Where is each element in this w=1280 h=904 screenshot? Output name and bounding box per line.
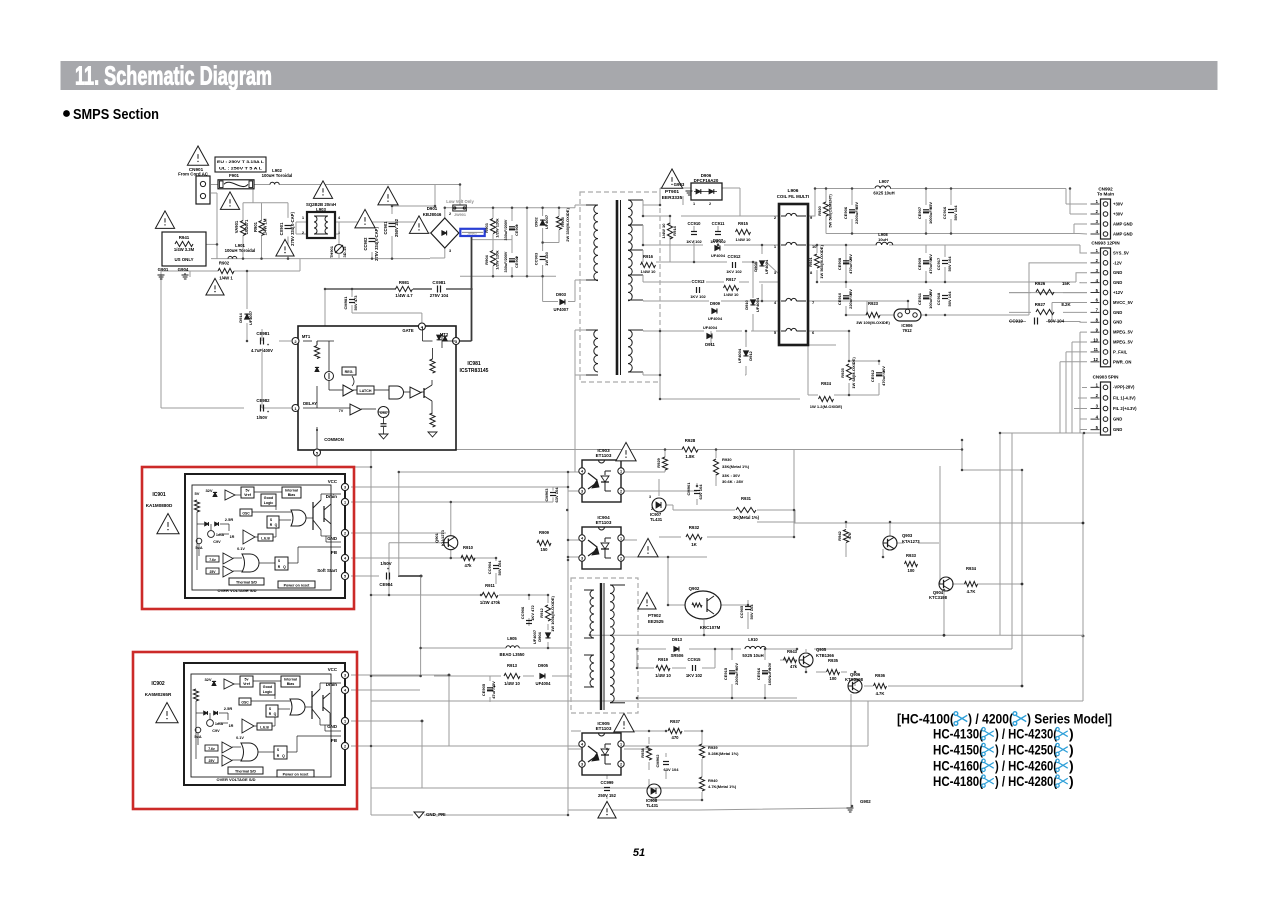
svg-text:50V 104: 50V 104 (947, 291, 952, 307)
svg-text:R921: R921 (808, 256, 813, 266)
svg-text:) / 4200(: ) / 4200( (968, 711, 1013, 727)
capacitor CE905 (487, 687, 493, 689)
svg-text:GND: GND (1113, 310, 1122, 315)
svg-text:50V 473: 50V 473 (353, 295, 358, 311)
svg-text:SYS_5V: SYS_5V (1113, 250, 1129, 255)
ground GND_PRI (414, 812, 424, 818)
svg-text:GND: GND (327, 536, 337, 541)
wire out rail +30V caps (825, 189, 827, 203)
svg-text:3: 3 (344, 486, 346, 490)
IC981 internal zener (315, 367, 319, 371)
svg-text:Internal: Internal (284, 678, 297, 682)
IC IC902 output darlington (311, 691, 313, 719)
svg-text:) / HC-4230(: ) / HC-4230( (995, 726, 1057, 742)
warning triangle PT902 (638, 592, 656, 609)
resistor R920 (823, 202, 828, 216)
wire common to left frame (317, 466, 371, 468)
svg-text:REG.: REG. (345, 370, 354, 374)
svg-text:[HC-4100(: [HC-4100( (897, 711, 954, 727)
svg-text:5W 560(CEMENT): 5W 560(CEMENT) (828, 194, 833, 228)
svg-text:L910: L910 (748, 637, 758, 642)
svg-text:25V: 25V (209, 570, 216, 574)
svg-text:5v: 5v (246, 489, 250, 493)
svg-text:Power on reset: Power on reset (284, 584, 311, 588)
capacitor CE915 (729, 670, 735, 672)
IC IC902 LEB box (257, 723, 272, 730)
svg-text:63V 104: 63V 104 (554, 487, 559, 503)
wire CC999 column (606, 749, 608, 779)
svg-text:FIL 2(+4.3V): FIL 2(+4.3V) (1113, 406, 1137, 411)
svg-text:2: 2 (620, 557, 622, 561)
svg-text:25V: 25V (208, 759, 215, 763)
wire X-cap row (371, 222, 373, 228)
svg-text:CC913: CC913 (691, 279, 705, 284)
wire +12V stair to pin5 (1009, 292, 1087, 294)
diode D912 (743, 351, 748, 356)
svg-text:Bias: Bias (287, 682, 295, 686)
svg-text:R919: R919 (658, 657, 669, 662)
svg-text:R904: R904 (484, 254, 489, 264)
svg-text:GND: GND (1113, 417, 1122, 422)
svg-text:ET1103: ET1103 (596, 453, 612, 458)
IC IC902 SRQ box 1 (266, 705, 278, 717)
svg-text:R936: R936 (875, 673, 886, 678)
svg-text:CE908: CE908 (837, 257, 842, 270)
wire snubber verticals (492, 208, 494, 218)
svg-text:R913: R913 (507, 663, 518, 668)
svg-text:1/4W 10: 1/4W 10 (661, 223, 666, 239)
warning triangle W9 (409, 216, 428, 233)
wire 7912 to CN993 pin2 (1029, 263, 1087, 315)
wire bottom FB long (351, 745, 868, 747)
wire R913 row (371, 675, 421, 677)
svg-text:GND_PRI: GND_PRI (426, 812, 446, 817)
svg-text:D909: D909 (710, 301, 721, 306)
svg-text:+30V: +30V (1113, 211, 1123, 216)
warning triangle IC903 (616, 442, 636, 460)
wire bottom drain net (351, 689, 420, 691)
SMPS Section heading bullet (63, 110, 70, 117)
wire IC907 net (658, 479, 660, 496)
wire IC981 delay left (262, 407, 291, 409)
wire PWR_ON stair pin12 (1060, 361, 1087, 363)
wire sec rail 4 (643, 300, 709, 302)
svg-text:C9V: C9V (213, 540, 221, 544)
IC IC901 OR gate (242, 554, 259, 572)
IC981 outline (298, 326, 456, 450)
capacitor CE910 (843, 295, 849, 297)
capacitor CC906 (526, 620, 532, 622)
IC IC902 inner box (191, 674, 331, 777)
IC IC902 5uA source (195, 727, 201, 733)
fuse rating box (215, 157, 266, 172)
svg-text:PT901: PT901 (665, 189, 679, 195)
svg-text:63V 104: 63V 104 (698, 484, 703, 500)
svg-text:FIL 1(-4.3V): FIL 1(-4.3V) (1113, 395, 1136, 400)
IC IC901 power on reset box (278, 581, 315, 588)
svg-text:7.6v: 7.6v (209, 558, 216, 562)
svg-text:15K: 15K (1062, 281, 1071, 286)
wire Q901 base row (389, 542, 444, 544)
IC981 pin COMMON (314, 449, 321, 456)
svg-text:R929: R929 (656, 457, 661, 467)
svg-text:1/4W 10: 1/4W 10 (504, 681, 520, 686)
svg-text:Q905: Q905 (816, 647, 827, 652)
wire opto net B (371, 594, 481, 596)
diode D910 (750, 300, 755, 305)
junction dots (216, 243, 219, 246)
resistor R929 (662, 457, 667, 470)
IC981 comparator B (350, 404, 361, 415)
capacitor CC902 (369, 238, 376, 240)
svg-text:D913: D913 (672, 637, 683, 642)
svg-text:4.7uF/400V: 4.7uF/400V (251, 348, 273, 353)
wire bottom mid rail 635 (590, 634, 1083, 636)
svg-text:2: 2 (344, 745, 346, 749)
svg-text:150: 150 (541, 547, 549, 552)
wire mid gnd rail (820, 281, 1076, 283)
wire MPEG stair pin9 (1080, 331, 1087, 333)
IC IC902 mosfet (322, 695, 324, 711)
capacitor CM902 (663, 761, 669, 763)
wire out row2 (808, 244, 877, 246)
IC981 gnd symbol B (428, 432, 437, 437)
PT902 primary upper (590, 590, 594, 638)
warning triangle W7 (355, 209, 375, 227)
svg-text:4.7K: 4.7K (876, 691, 885, 696)
svg-text:0.1V: 0.1V (237, 547, 245, 551)
IC IC902 internal amp1 (224, 679, 234, 689)
svg-text:2W 330(M-OXIDE): 2W 330(M-OXIDE) (565, 208, 570, 242)
IC IC902 error amp (242, 719, 254, 733)
svg-text:CM903: CM903 (544, 488, 549, 502)
svg-text:1KV 102: 1KV 102 (686, 673, 703, 678)
svg-text:R901: R901 (253, 221, 258, 232)
svg-text:47k: 47k (790, 664, 798, 669)
svg-text:CN993 12PIN: CN993 12PIN (1091, 241, 1120, 246)
svg-text:1: 1 (344, 501, 346, 505)
svg-text:CC916: CC916 (942, 206, 947, 219)
svg-text:Q903: Q903 (902, 533, 913, 538)
capacitor CE911 (923, 295, 929, 297)
svg-text:1R: 1R (229, 724, 234, 728)
svg-text:R927: R927 (1035, 302, 1046, 307)
svg-text:L.E.B: L.E.B (260, 726, 269, 730)
wire aux winding VCC feed (574, 375, 576, 472)
svg-text:TL431: TL431 (650, 517, 663, 522)
wire long loop y701 (371, 700, 1083, 702)
diode D908 (759, 261, 764, 266)
svg-text:R903: R903 (484, 222, 489, 232)
wire primary pins (574, 205, 576, 208)
wire sec mid taps (643, 281, 691, 283)
svg-text:R915: R915 (738, 221, 749, 226)
svg-text:CC912: CC912 (727, 254, 741, 259)
svg-text:330uF/200V: 330uF/200V (504, 219, 508, 240)
wire D914 column (246, 271, 248, 309)
opto-coupler IC903 (582, 460, 621, 502)
IC IC901 SRQ box 1 (267, 516, 279, 528)
IC IC902 comparator 7.6V (205, 745, 218, 751)
svg-text:G903: G903 (674, 182, 685, 187)
svg-text:100uH Toroidal: 100uH Toroidal (262, 173, 293, 178)
IC981 REG box (342, 367, 356, 375)
IC IC902 pins (341, 671, 348, 678)
svg-text:R920: R920 (817, 205, 822, 215)
wire bridge top vertex up (444, 208, 446, 218)
wire opto net A (399, 471, 568, 473)
svg-text:CE906: CE906 (843, 206, 848, 219)
svg-text:330uF/200V: 330uF/200V (504, 251, 508, 272)
wire R943 net (780, 659, 789, 661)
capacitor CC916 (948, 209, 954, 211)
wire pin9 up to top rail (808, 189, 874, 217)
svg-text:470: 470 (672, 735, 680, 740)
wire gnd stair pin7 (1075, 311, 1077, 313)
svg-text:GND: GND (1113, 427, 1122, 432)
svg-text:1KV 102: 1KV 102 (686, 239, 702, 244)
capacitor CE907 (923, 209, 929, 211)
resistor R901 (259, 221, 264, 236)
svg-text:1/4W 1M: 1/4W 1M (263, 218, 268, 235)
svg-text:R914: R914 (672, 225, 677, 235)
svg-text:5V: 5V (195, 491, 200, 496)
svg-text:D902: D902 (534, 216, 539, 226)
wire MT2 stub (574, 341, 576, 375)
varistor VA901 (240, 221, 245, 236)
svg-text:D901: D901 (427, 206, 438, 211)
wire IC901 drain net (351, 501, 553, 503)
svg-text:D905: D905 (538, 663, 549, 668)
svg-text:) / HC-4280(: ) / HC-4280( (995, 773, 1057, 789)
transformer PT901 secondary taps (628, 224, 643, 226)
svg-text:R934: R934 (966, 566, 977, 571)
svg-text:1/2W 470k: 1/2W 470k (480, 600, 501, 605)
svg-text:L.E.B: L.E.B (261, 537, 270, 541)
wire D913 row (637, 648, 666, 650)
svg-text:GND: GND (1113, 280, 1122, 285)
svg-text:UF4004: UF4004 (708, 316, 723, 321)
IC981 pin MT1 (292, 338, 299, 345)
wire 7912 top stub (907, 301, 909, 309)
wire AC input net verticals (459, 185, 461, 208)
svg-text:UL : 250V T 5 A L: UL : 250V T 5 A L (219, 166, 263, 171)
wire snubber bottom rail (460, 275, 556, 277)
wire CE981 net (261, 352, 263, 408)
warning triangle CC999 (598, 801, 616, 818)
svg-text:F901: F901 (229, 173, 240, 178)
connector CN992 (1101, 199, 1111, 239)
transformer PT901 aux primary small (597, 304, 599, 306)
svg-text:CX901: CX901 (279, 222, 284, 235)
svg-text:1/4W 10: 1/4W 10 (736, 237, 752, 242)
svg-text:JW901: JW901 (454, 213, 466, 217)
svg-text:G902: G902 (860, 799, 871, 804)
capacitor CE909 (923, 260, 929, 262)
IC981 current source (325, 372, 334, 381)
svg-text:470uF/10V: 470uF/10V (881, 366, 886, 386)
svg-text:G901: G901 (158, 267, 169, 272)
wire IC901 VCC net (351, 486, 568, 488)
svg-text:Q: Q (274, 712, 277, 716)
svg-text:R925: R925 (840, 367, 845, 377)
warning triangle W5 (155, 211, 174, 228)
transformer PT902 core (600, 583, 602, 710)
diode D903 (560, 299, 565, 304)
svg-text:1/4W 3.3M: 1/4W 3.3M (174, 247, 195, 252)
svg-text:CN903 5PIN: CN903 5PIN (1093, 375, 1119, 380)
svg-text:KTC3198: KTC3198 (845, 677, 864, 682)
wire AC lower rail (211, 258, 430, 260)
capacitor CC901 (389, 223, 396, 225)
capacitor CE901 (509, 226, 515, 228)
svg-text:CC904: CC904 (487, 561, 492, 574)
warning triangle W3 (276, 239, 294, 256)
wire R919 CC915 row (637, 667, 654, 669)
IC IC901 outer box (185, 474, 345, 598)
wire sec rail 1 (643, 215, 670, 217)
svg-text:VCC: VCC (328, 479, 338, 484)
svg-text:R940: R940 (708, 778, 718, 783)
blue highlight jumper (460, 229, 484, 236)
IC IC901 error amp (243, 530, 255, 544)
svg-text:KTA1273: KTA1273 (902, 539, 920, 544)
svg-text:Good: Good (264, 496, 273, 500)
wire row2 branch (816, 245, 818, 253)
svg-text:Drain: Drain (326, 494, 338, 499)
svg-text:R937: R937 (670, 719, 681, 724)
svg-text:47uF/35V: 47uF/35V (491, 681, 496, 699)
svg-text:Vref: Vref (243, 682, 251, 686)
svg-text:-12V: -12V (1113, 260, 1122, 265)
IC981 internal resistor 1 (316, 341, 318, 345)
capacitor CC917 (942, 260, 948, 262)
IC981 output transistor (423, 388, 425, 398)
IC981 pin MT2 (453, 338, 460, 345)
wire Q901 collector (450, 502, 452, 536)
svg-text:GND: GND (1113, 320, 1122, 325)
svg-text:1W 560(M-OXIDE): 1W 560(M-OXIDE) (819, 245, 824, 279)
svg-text:1W 100k(M-OXIDE): 1W 100k(M-OXIDE) (550, 595, 555, 631)
opto-coupler IC905 (582, 733, 621, 775)
wire D904 to L905 (547, 642, 549, 648)
svg-text:EU : 250V T 3.15A L: EU : 250V T 3.15A L (217, 159, 265, 164)
resistor R938 (646, 746, 651, 760)
svg-text:CE905: CE905 (481, 683, 486, 696)
capacitor CE908 (843, 260, 849, 262)
svg-text:MT1: MT1 (302, 334, 311, 339)
wire MPEG stair pin10 (1072, 341, 1087, 343)
IC IC902 vref box (240, 676, 253, 687)
svg-text:L905: L905 (507, 636, 517, 641)
svg-text:-VPP(-28V): -VPP(-28V) (1113, 385, 1135, 390)
svg-text:UF4007: UF4007 (554, 307, 570, 312)
svg-text:32V: 32V (204, 677, 211, 682)
svg-text:33K(Metal 1%): 33K(Metal 1%) (722, 464, 750, 469)
svg-text:CE902: CE902 (515, 256, 519, 268)
IC IC901 diode pair (205, 522, 209, 526)
wire diode cluster verticals (669, 216, 671, 226)
transformer PT901 dashed frame (580, 192, 660, 382)
transistor Q903 (883, 536, 897, 550)
wire KTA1273 collector (889, 528, 891, 536)
svg-text:To Main: To Main (1097, 192, 1114, 197)
IC IC902 power on reset box (277, 770, 314, 777)
svg-text:MPEG_5V: MPEG_5V (1113, 330, 1133, 335)
IC IC902 current source 1mA (207, 720, 214, 727)
svg-text:3: 3 (581, 557, 583, 561)
warning triangle W6 (206, 278, 224, 295)
svg-text:D904: D904 (537, 631, 542, 641)
svg-text:UF4004: UF4004 (764, 259, 769, 274)
svg-text:470uF/25V: 470uF/25V (848, 254, 853, 274)
svg-text:CE984: CE984 (379, 582, 393, 587)
svg-text:GND: GND (1113, 270, 1122, 275)
wire IC981 bottom feedback row (456, 449, 682, 451)
svg-text:1: 1 (620, 743, 622, 747)
svg-text:470uF/16V: 470uF/16V (928, 254, 933, 274)
IC IC902 outer box (184, 663, 345, 785)
capacitor CE902 (509, 258, 515, 260)
diode D902 (540, 220, 545, 225)
wire R938 column (648, 737, 650, 744)
warning triangle IC905 (614, 713, 634, 731)
IC IC902 SRQ box 2 (274, 746, 287, 759)
svg-text:AMP GND: AMP GND (1113, 221, 1133, 226)
IC981 internal cap (381, 423, 387, 425)
svg-text:Thermal S/D: Thermal S/D (236, 581, 257, 585)
wire CN901 pin2 net (211, 192, 217, 194)
svg-text:CC905: CC905 (739, 605, 744, 618)
svg-text:UF4007: UF4007 (532, 629, 537, 644)
svg-text:ICSTR83145: ICSTR83145 (460, 368, 489, 374)
svg-text:MVCC_5V: MVCC_5V (1113, 300, 1133, 305)
capacitor CC904 (493, 565, 499, 567)
svg-text:10: 10 (1093, 337, 1098, 342)
IC IC901 main gate (291, 510, 306, 526)
svg-text:1KV 472: 1KV 472 (530, 604, 535, 620)
capacitor CE916 (762, 670, 768, 672)
svg-text:7.6v: 7.6v (208, 747, 215, 751)
wire out rail +30V (890, 188, 1066, 190)
warning triangle W2 (220, 192, 239, 209)
svg-text:D907: D907 (713, 238, 724, 243)
IC981 triac (437, 335, 442, 340)
wire top hot rail (445, 207, 453, 209)
wire R926 net (1009, 292, 1031, 294)
svg-text:5v: 5v (245, 678, 249, 682)
svg-text:2200uF/35V: 2200uF/35V (854, 202, 859, 224)
transformer PT901 primary winding lower (594, 330, 598, 372)
svg-text:+30V: +30V (1113, 201, 1123, 206)
svg-text:R941: R941 (179, 235, 190, 240)
wire CM901 column (696, 483, 698, 486)
svg-text:CC915: CC915 (687, 657, 701, 662)
IC981 gnd symbol A (379, 434, 388, 439)
svg-text:R939: R939 (708, 745, 718, 750)
svg-text:1: 1 (620, 470, 622, 474)
svg-text:Logic: Logic (263, 690, 273, 694)
svg-text:CE915: CE915 (723, 667, 728, 680)
svg-text:30.6K : 28V: 30.6K : 28V (722, 479, 744, 484)
svg-text:OVER VOLTAGE S/D: OVER VOLTAGE S/D (217, 777, 256, 782)
capacitor CM901 (694, 490, 700, 492)
svg-text:50V 104: 50V 104 (749, 604, 754, 620)
svg-text:HC-4180(: HC-4180( (933, 773, 983, 789)
wire L903 to bridge (335, 221, 420, 223)
svg-text:Thermal S/D: Thermal S/D (235, 770, 256, 774)
wire CM981 column (351, 289, 353, 297)
